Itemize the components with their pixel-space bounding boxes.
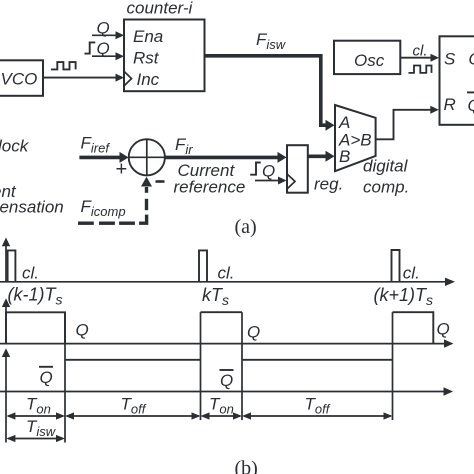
svg-text:cl.: cl.: [218, 263, 235, 282]
timing: cl axis horizontal: [0, 281, 445, 283]
wire comparator output to SR latch R: [376, 110, 431, 140]
timing: cl axis vertical: [5, 246, 7, 282]
svg-text:Q: Q: [262, 162, 275, 181]
arrow Ton 2: [203, 415, 241, 417]
block SR latch U2: [440, 36, 474, 125]
svg-text:lock: lock: [0, 137, 30, 156]
svg-text:Q: Q: [97, 39, 110, 58]
timing: cl pulse 3: [392, 250, 400, 282]
svg-text:comp.: comp.: [363, 177, 409, 196]
wire Fir summing junction to reg: [165, 156, 278, 160]
svg-text:Inc: Inc: [137, 70, 160, 89]
wire VCO to counter Inc: [43, 77, 117, 79]
svg-text:(a): (a): [235, 216, 257, 238]
svg-text:Rst: Rst: [133, 49, 160, 68]
svg-text:S: S: [444, 50, 456, 69]
svg-text:reference: reference: [174, 178, 246, 197]
svg-text:Q: Q: [76, 321, 89, 340]
svg-text:Osc: Osc: [354, 51, 385, 70]
measurement delimiter x=6.4: [5, 392, 7, 443]
svg-text:B: B: [339, 147, 350, 166]
wire Q to counter Ena: [92, 34, 117, 36]
timing: Qbar high segment 1: [65, 359, 201, 361]
arrow Ton 1: [8, 415, 63, 417]
timing: cl pulse 1: [8, 250, 16, 281]
svg-text:Ena: Ena: [133, 27, 163, 46]
measurement delimiter x=392.5: [392, 312, 394, 420]
svg-text:reg.: reg.: [314, 175, 343, 194]
wire Fisw counter output to comparator A: [205, 56, 327, 125]
wire edge-Q to reg clock: [255, 180, 279, 182]
measurement delimiter x=242: [241, 312, 243, 420]
wire reg to comparator B: [308, 155, 326, 159]
svg-text:Q: Q: [469, 50, 474, 69]
wire Osc to SR latch S: [400, 57, 431, 59]
timing: Q pulse 2 top: [201, 311, 243, 313]
svg-text:counter-i: counter-i: [127, 0, 194, 18]
svg-text:Q: Q: [220, 371, 233, 390]
block Osc: [334, 41, 400, 74]
minus sign at summing junction: [156, 180, 165, 183]
svg-text:digital: digital: [363, 156, 409, 175]
svg-text:cl.: cl.: [22, 263, 39, 282]
cl. pulse symbol: [409, 66, 432, 73]
svg-text:R: R: [444, 95, 456, 114]
timing: Qbar axis horizontal: [0, 391, 444, 393]
summing junction: [129, 139, 165, 175]
arrow Toff 1: [67, 415, 199, 417]
timing: Q pulse 1: [6, 312, 65, 343]
measurement delimiter x=65: [64, 312, 66, 442]
block counter U1: [124, 20, 205, 92]
timing: Qbar axis vertical: [5, 357, 7, 392]
wire Firef to summing junction: [79, 156, 119, 160]
svg-text:(k-1)Ts: (k-1)Ts: [8, 285, 63, 308]
rising edge symbol for Q (Rst): [85, 42, 96, 53]
svg-text:Q: Q: [247, 323, 260, 342]
svg-text:(b): (b): [235, 458, 258, 474]
measurement delimiter x=200.5: [200, 312, 202, 420]
svg-text:Q: Q: [437, 320, 450, 339]
comparator U3 (digital comp.): [335, 105, 376, 171]
block VCO: [0, 60, 43, 96]
svg-text:Q: Q: [468, 96, 474, 115]
rising edge symbol for reg clock: [250, 163, 261, 175]
arrow Toff 2: [244, 415, 391, 417]
wire edge-Q to counter Rst: [92, 55, 117, 57]
svg-text:(k+1)Ts: (k+1)Ts: [374, 285, 434, 308]
timing: Q axis horizontal: [0, 343, 444, 345]
clock triangle on Inc pin: [124, 71, 132, 86]
svg-text:A: A: [338, 113, 350, 132]
timing: Qbar high segment 2: [242, 359, 393, 361]
dashed wire Ficomp to summing junction: [78, 221, 94, 224]
svg-text:VCO: VCO: [1, 70, 38, 89]
VCO output pulse symbol: [51, 62, 76, 69]
clock triangle on reg: [287, 174, 295, 189]
timing: Q axis vertical: [5, 307, 7, 344]
svg-text:Q: Q: [40, 368, 53, 387]
arrow Tisw: [8, 438, 63, 440]
svg-text:cl.: cl.: [403, 263, 420, 282]
svg-text:pensation: pensation: [0, 198, 64, 217]
timing: Q pulse 3 top: [393, 312, 434, 343]
block reg: [287, 145, 308, 193]
timing: cl pulse 2: [199, 250, 207, 281]
